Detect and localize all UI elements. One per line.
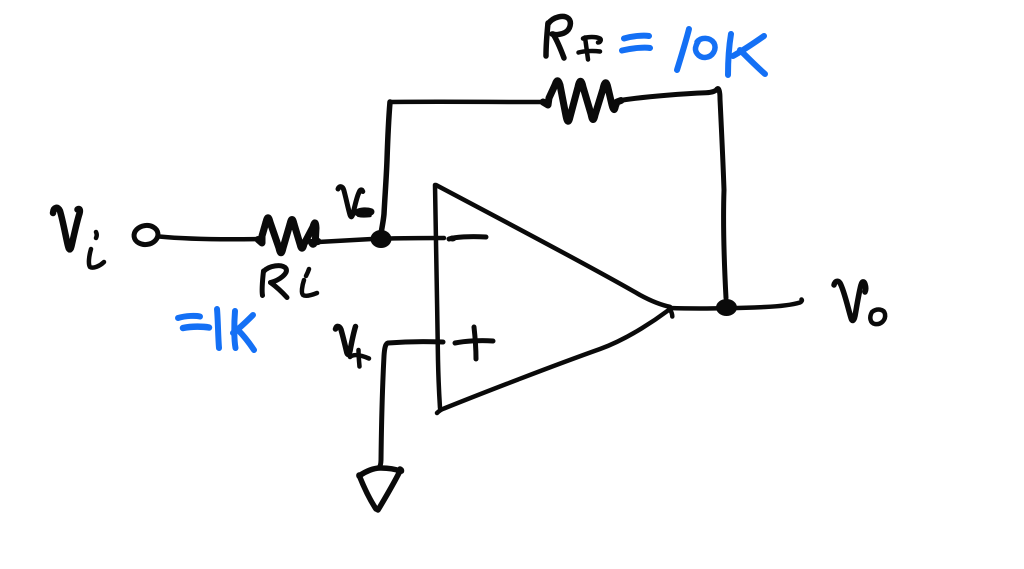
label Vi [53,208,104,268]
op-amp U1 bottom edge [437,311,668,414]
value label Ri = 1K (blue) [178,309,254,350]
output apex tick [670,309,673,317]
label Ri [262,266,317,298]
wire non-inverting input and down to ground [379,342,444,468]
resistor Ri [258,218,318,253]
output node junction dot [716,299,737,316]
op-amp non-inverting pin marker (+) [455,327,493,359]
wire feedback right segment and down to output node [620,89,726,298]
label Vo [834,281,885,324]
label Rf [546,16,601,59]
input terminal circle [133,224,159,246]
label V- [338,187,371,217]
op-amp U1 left edge [435,185,440,408]
wire input to Ri [159,237,260,240]
wire feedback up from node [381,102,391,236]
value label Rf = 10K (blue) [622,29,765,75]
wire node to op-amp inverting input [390,236,444,241]
resistor Rf [543,81,621,122]
op-amp U1 top edge [436,185,670,307]
ground symbol [359,468,402,510]
wire Ri to inverting node [318,239,372,242]
wire feedback top left segment [390,100,546,105]
op-amp inverting pin marker (-) [449,236,487,242]
wire output [670,300,802,309]
label V+ [336,326,370,366]
node V- junction dot [371,230,392,248]
